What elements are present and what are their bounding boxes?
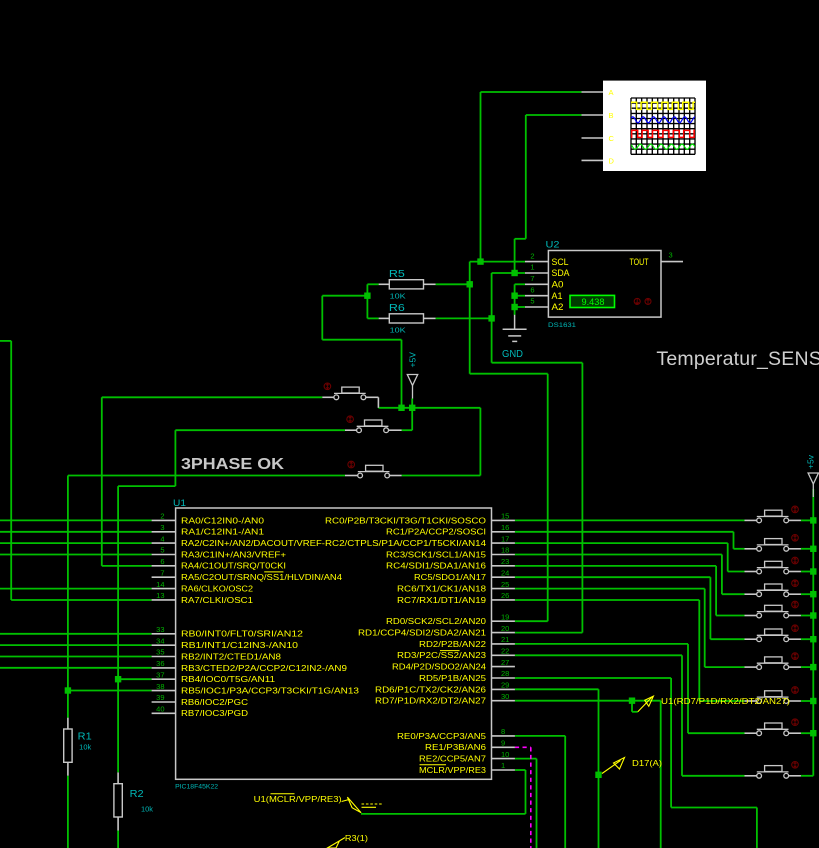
svg-text:RA4/C1OUT/SRQ/T0CKI: RA4/C1OUT/SRQ/T0CKI bbox=[181, 562, 286, 571]
svg-text:C: C bbox=[609, 134, 615, 143]
svg-text:10K: 10K bbox=[390, 325, 406, 334]
svg-text:A: A bbox=[609, 88, 614, 97]
svg-text:6: 6 bbox=[160, 557, 164, 566]
svg-text:7: 7 bbox=[160, 568, 164, 577]
svg-text:15: 15 bbox=[501, 512, 509, 521]
svg-text:RB6/IOC2/PGC: RB6/IOC2/PGC bbox=[181, 698, 248, 707]
svg-text:RD7/P1D/RX2/DT2/AN27: RD7/P1D/RX2/DT2/AN27 bbox=[375, 697, 487, 706]
svg-text:RC7/RX1/DT1/AN19: RC7/RX1/DT1/AN19 bbox=[397, 596, 487, 605]
svg-text:36: 36 bbox=[156, 659, 164, 668]
svg-text:5: 5 bbox=[530, 297, 534, 306]
svg-text:A1: A1 bbox=[552, 291, 563, 301]
svg-text:GND: GND bbox=[502, 349, 523, 360]
svg-text:1: 1 bbox=[530, 263, 534, 272]
svg-text:17: 17 bbox=[501, 534, 509, 543]
svg-text:RA6/CLKO/OSC2: RA6/CLKO/OSC2 bbox=[181, 585, 254, 594]
svg-text:29: 29 bbox=[501, 681, 509, 690]
svg-text:RA7/CLKI/OSC1: RA7/CLKI/OSC1 bbox=[181, 596, 254, 605]
svg-text:9: 9 bbox=[501, 739, 505, 748]
svg-text:3: 3 bbox=[669, 251, 673, 260]
svg-text:RD6/P1C/TX2/CK2/AN26: RD6/P1C/TX2/CK2/AN26 bbox=[375, 685, 487, 694]
svg-text:RA0/C12IN0-/AN0: RA0/C12IN0-/AN0 bbox=[181, 516, 265, 525]
svg-text:RB0/INT0/FLT0/SRI/AN12: RB0/INT0/FLT0/SRI/AN12 bbox=[181, 630, 304, 639]
svg-text:R3(1): R3(1) bbox=[345, 834, 368, 843]
svg-text:RB4/IOC0/T5G/AN11: RB4/IOC0/T5G/AN11 bbox=[181, 675, 276, 684]
svg-text:+5v: +5v bbox=[806, 454, 816, 469]
svg-text:6: 6 bbox=[530, 285, 534, 294]
svg-text:39: 39 bbox=[156, 693, 164, 702]
svg-text:9.438: 9.438 bbox=[582, 297, 605, 307]
svg-text:10k: 10k bbox=[141, 807, 154, 814]
svg-text:RC1/P2A/CCP2/SOSCI: RC1/P2A/CCP2/SOSCI bbox=[386, 528, 486, 537]
svg-text:18: 18 bbox=[501, 546, 509, 555]
svg-text:SDA: SDA bbox=[552, 268, 570, 278]
svg-text:34: 34 bbox=[156, 636, 164, 645]
svg-text:U1(RD7/P1D/RX2/DT2/AN27): U1(RD7/P1D/RX2/DT2/AN27) bbox=[661, 697, 790, 706]
svg-text:D: D bbox=[609, 156, 615, 165]
svg-text:RB5/IOC1/P3A/CCP3/T3CKI/T1G/AN: RB5/IOC1/P3A/CCP3/T3CKI/T1G/AN13 bbox=[181, 687, 360, 696]
svg-text:RB1/INT1/C12IN3-/AN10: RB1/INT1/C12IN3-/AN10 bbox=[181, 641, 299, 650]
svg-text:14: 14 bbox=[156, 580, 164, 589]
svg-text:40: 40 bbox=[156, 705, 164, 714]
svg-text:RE0/P3A/CCP3/AN5: RE0/P3A/CCP3/AN5 bbox=[397, 732, 487, 741]
svg-text:10K: 10K bbox=[390, 291, 406, 300]
svg-text:RA3/C1IN+/AN3/VREF+: RA3/C1IN+/AN3/VREF+ bbox=[181, 550, 286, 559]
svg-text:3PHASE OK: 3PHASE OK bbox=[181, 456, 284, 473]
svg-text:R2: R2 bbox=[130, 789, 144, 800]
svg-text:B: B bbox=[609, 111, 614, 120]
svg-text:33: 33 bbox=[156, 625, 164, 634]
svg-text:DS1631: DS1631 bbox=[548, 322, 576, 329]
svg-text:20: 20 bbox=[501, 624, 509, 633]
svg-text:RB7/IOC3/PGD: RB7/IOC3/PGD bbox=[181, 709, 248, 718]
svg-text:7: 7 bbox=[530, 274, 534, 283]
svg-text:24: 24 bbox=[501, 568, 509, 577]
svg-text:A2: A2 bbox=[552, 302, 564, 312]
svg-text:19: 19 bbox=[501, 612, 509, 621]
svg-text:RC6/TX1/CK1/AN18: RC6/TX1/CK1/AN18 bbox=[397, 585, 487, 594]
svg-text:10: 10 bbox=[501, 750, 509, 759]
svg-text:RB3/CTED2/P2A/CCP2/C12IN2-/AN9: RB3/CTED2/P2A/CCP2/C12IN2-/AN9 bbox=[181, 664, 348, 673]
svg-text:5: 5 bbox=[160, 546, 164, 555]
svg-text:RC5/SDO1/AN17: RC5/SDO1/AN17 bbox=[414, 573, 487, 582]
svg-text:R6: R6 bbox=[389, 303, 406, 314]
svg-text:13: 13 bbox=[156, 591, 164, 600]
svg-text:RD3/P2C/SS2/AN23: RD3/P2C/SS2/AN23 bbox=[397, 651, 487, 660]
svg-text:16: 16 bbox=[501, 523, 509, 532]
svg-text:38: 38 bbox=[156, 682, 164, 691]
svg-text:+5V: +5V bbox=[408, 352, 418, 368]
svg-text:1: 1 bbox=[501, 761, 505, 770]
svg-text:RD4/P2D/SDO2/AN24: RD4/P2D/SDO2/AN24 bbox=[392, 663, 487, 672]
svg-text:U2: U2 bbox=[546, 240, 560, 250]
svg-text:A0: A0 bbox=[552, 280, 564, 290]
svg-text:RB2/INT2/CTED1/AN8: RB2/INT2/CTED1/AN8 bbox=[181, 652, 282, 661]
svg-text:30: 30 bbox=[501, 692, 509, 701]
svg-text:RD2/P2B/AN22: RD2/P2B/AN22 bbox=[419, 640, 487, 649]
svg-text:4: 4 bbox=[160, 534, 164, 543]
svg-text:RD1/CCP4/SDI2/SDA2/AN21: RD1/CCP4/SDI2/SDA2/AN21 bbox=[358, 629, 487, 638]
svg-text:R1: R1 bbox=[78, 732, 92, 743]
svg-text:25: 25 bbox=[501, 580, 509, 589]
svg-text:RA1/C12IN1-/AN1: RA1/C12IN1-/AN1 bbox=[181, 528, 265, 537]
svg-text:2: 2 bbox=[530, 251, 534, 260]
svg-text:2: 2 bbox=[160, 512, 164, 521]
svg-text:U1: U1 bbox=[173, 498, 186, 508]
svg-text:RC2/CTPLS/P1A/CCP1/T5CKI/AN14: RC2/CTPLS/P1A/CCP1/T5CKI/AN14 bbox=[325, 539, 487, 548]
svg-text:U1(MCLR/VPP/RE3): U1(MCLR/VPP/RE3) bbox=[254, 795, 342, 804]
svg-text:28: 28 bbox=[501, 669, 509, 678]
svg-text:RC0/P2B/T3CKI/T3G/T1CKI/SOSCO: RC0/P2B/T3CKI/T3G/T1CKI/SOSCO bbox=[325, 516, 486, 525]
svg-text:10k: 10k bbox=[79, 745, 92, 752]
svg-text:RC4/SDI1/SDA1/AN16: RC4/SDI1/SDA1/AN16 bbox=[386, 562, 487, 571]
svg-text:22: 22 bbox=[501, 647, 509, 656]
svg-text:35: 35 bbox=[156, 648, 164, 657]
svg-text:RC3/SCK1/SCL1/AN15: RC3/SCK1/SCL1/AN15 bbox=[386, 550, 487, 559]
svg-text:3: 3 bbox=[160, 523, 164, 532]
svg-text:Temperatur_SENSOR: Temperatur_SENSOR bbox=[656, 348, 819, 370]
svg-text:8: 8 bbox=[501, 727, 505, 736]
svg-text:RE1/P3B/AN6: RE1/P3B/AN6 bbox=[425, 743, 487, 752]
svg-text:37: 37 bbox=[156, 670, 164, 679]
svg-text:RD5/P1B/AN25: RD5/P1B/AN25 bbox=[419, 674, 487, 683]
svg-text:MCLR/VPP/RE3: MCLR/VPP/RE3 bbox=[419, 766, 487, 775]
svg-text:RD0/SCK2/SCL2/AN20: RD0/SCK2/SCL2/AN20 bbox=[386, 617, 487, 626]
svg-text:PIC18F45K22: PIC18F45K22 bbox=[175, 784, 218, 791]
svg-text:R5: R5 bbox=[389, 269, 406, 280]
svg-text:27: 27 bbox=[501, 658, 509, 667]
svg-text:23: 23 bbox=[501, 557, 509, 566]
svg-text:RE2/CCP5/AN7: RE2/CCP5/AN7 bbox=[419, 755, 487, 764]
svg-text:TOUT: TOUT bbox=[630, 257, 649, 267]
svg-text:RA5/C2OUT/SRNQ/SS1/HLVDIN/AN4: RA5/C2OUT/SRNQ/SS1/HLVDIN/AN4 bbox=[181, 573, 343, 582]
svg-text:D17(A): D17(A) bbox=[632, 759, 662, 768]
svg-text:SCL: SCL bbox=[552, 257, 569, 267]
svg-text:RA2/C2IN+/AN2/DACOUT/VREF-: RA2/C2IN+/AN2/DACOUT/VREF- bbox=[181, 539, 325, 548]
svg-text:26: 26 bbox=[501, 591, 509, 600]
svg-text:21: 21 bbox=[501, 635, 509, 644]
